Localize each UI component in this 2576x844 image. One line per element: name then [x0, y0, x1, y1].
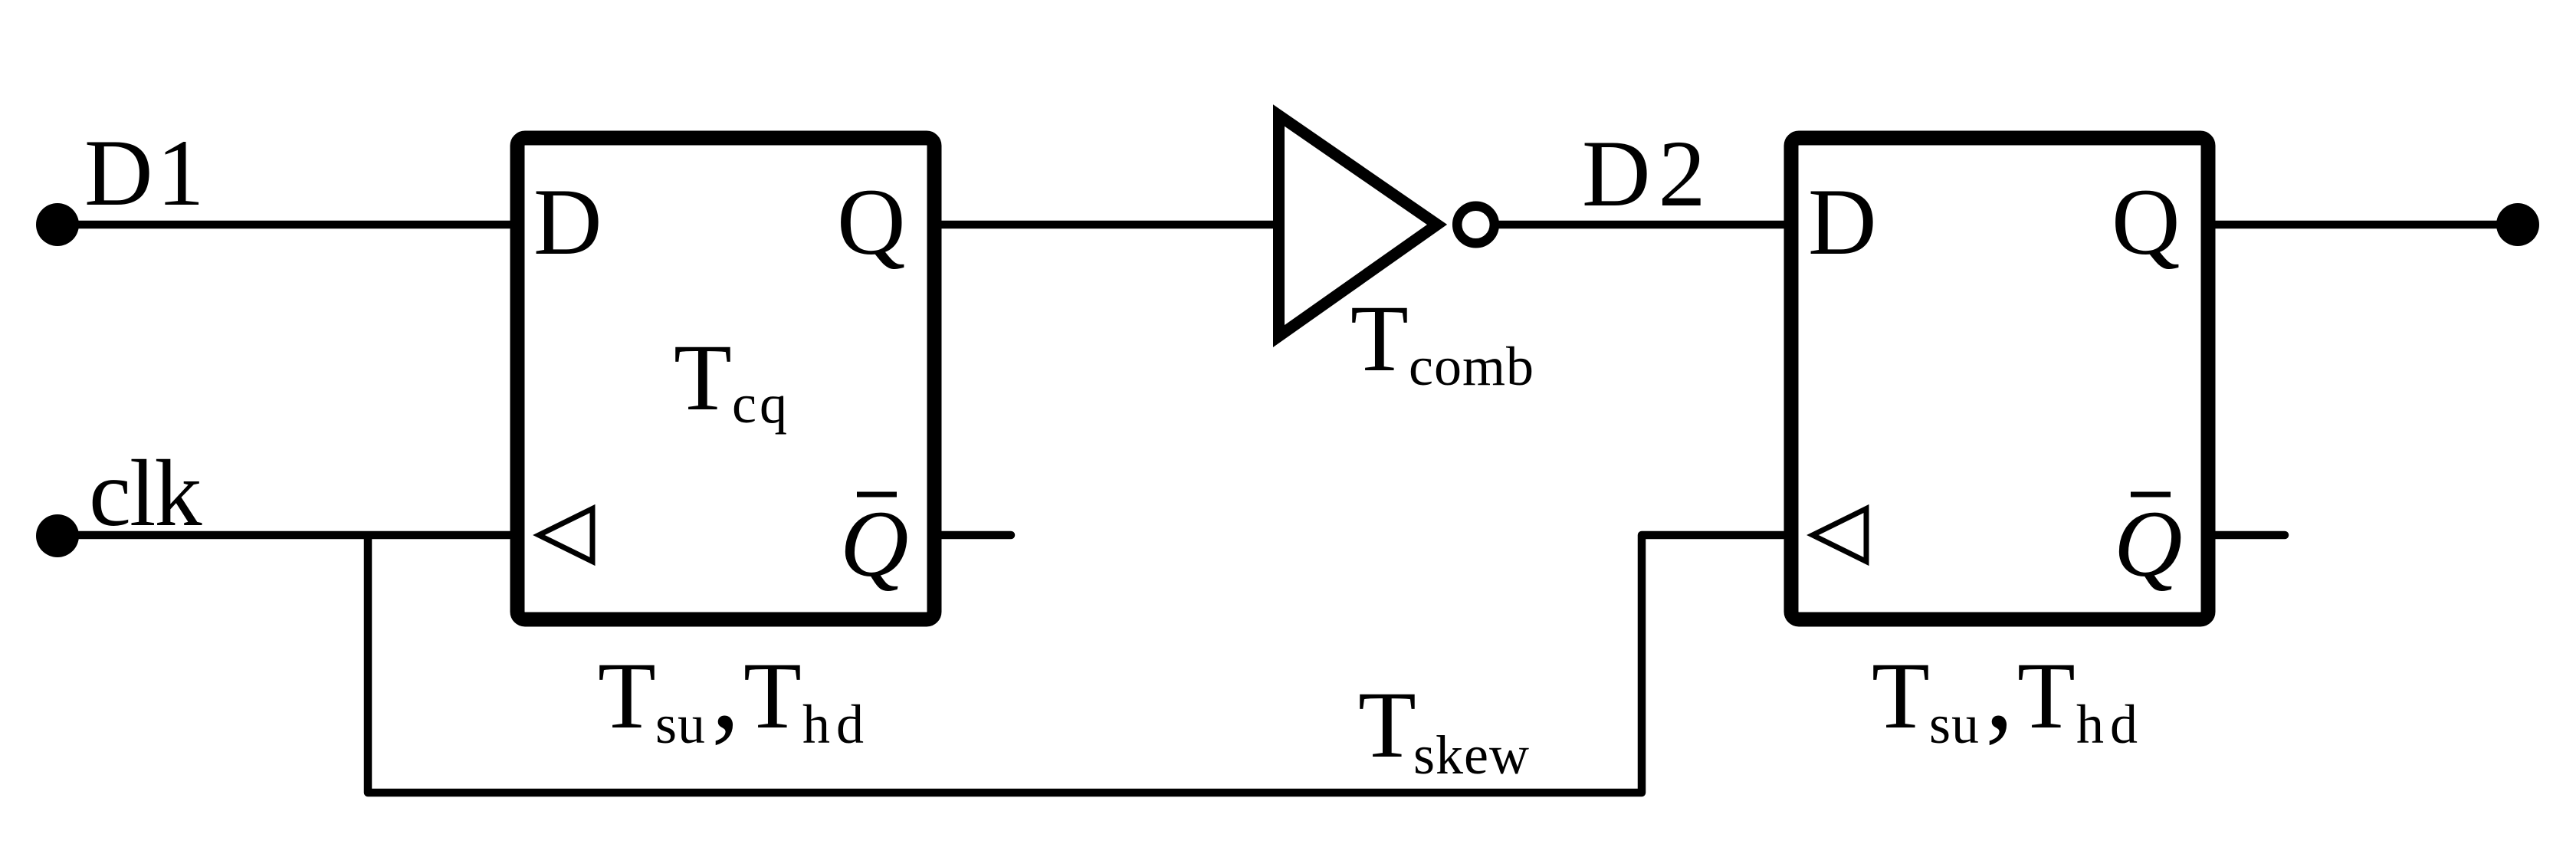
- svg-text:,: ,: [1985, 626, 2014, 753]
- svg-text:hd: hd: [802, 694, 870, 755]
- svg-text:,: ,: [711, 626, 740, 753]
- svg-text:Q: Q: [837, 169, 906, 274]
- svg-text:T: T: [1358, 672, 1416, 777]
- svg-text:hd: hd: [2076, 694, 2144, 755]
- svg-text:D: D: [533, 169, 602, 274]
- svg-text:su: su: [655, 694, 706, 755]
- svg-text:T: T: [1350, 286, 1409, 391]
- svg-text:T: T: [2017, 643, 2076, 748]
- svg-text:D2: D2: [1582, 121, 1714, 226]
- svg-text:Q: Q: [840, 491, 909, 596]
- svg-text:T: T: [674, 325, 732, 430]
- svg-text:cq: cq: [732, 373, 790, 435]
- svg-text:T: T: [598, 643, 656, 748]
- svg-text:D: D: [1808, 169, 1877, 274]
- svg-text:clk: clk: [89, 441, 202, 546]
- svg-text:Q: Q: [2112, 169, 2181, 274]
- svg-text:T: T: [1872, 643, 1930, 748]
- svg-text:comb: comb: [1409, 336, 1534, 397]
- svg-text:su: su: [1929, 694, 1980, 755]
- svg-text:Q: Q: [2114, 491, 2183, 596]
- svg-text:D1: D1: [84, 120, 208, 225]
- svg-text:T: T: [743, 643, 802, 748]
- svg-text:skew: skew: [1413, 724, 1530, 786]
